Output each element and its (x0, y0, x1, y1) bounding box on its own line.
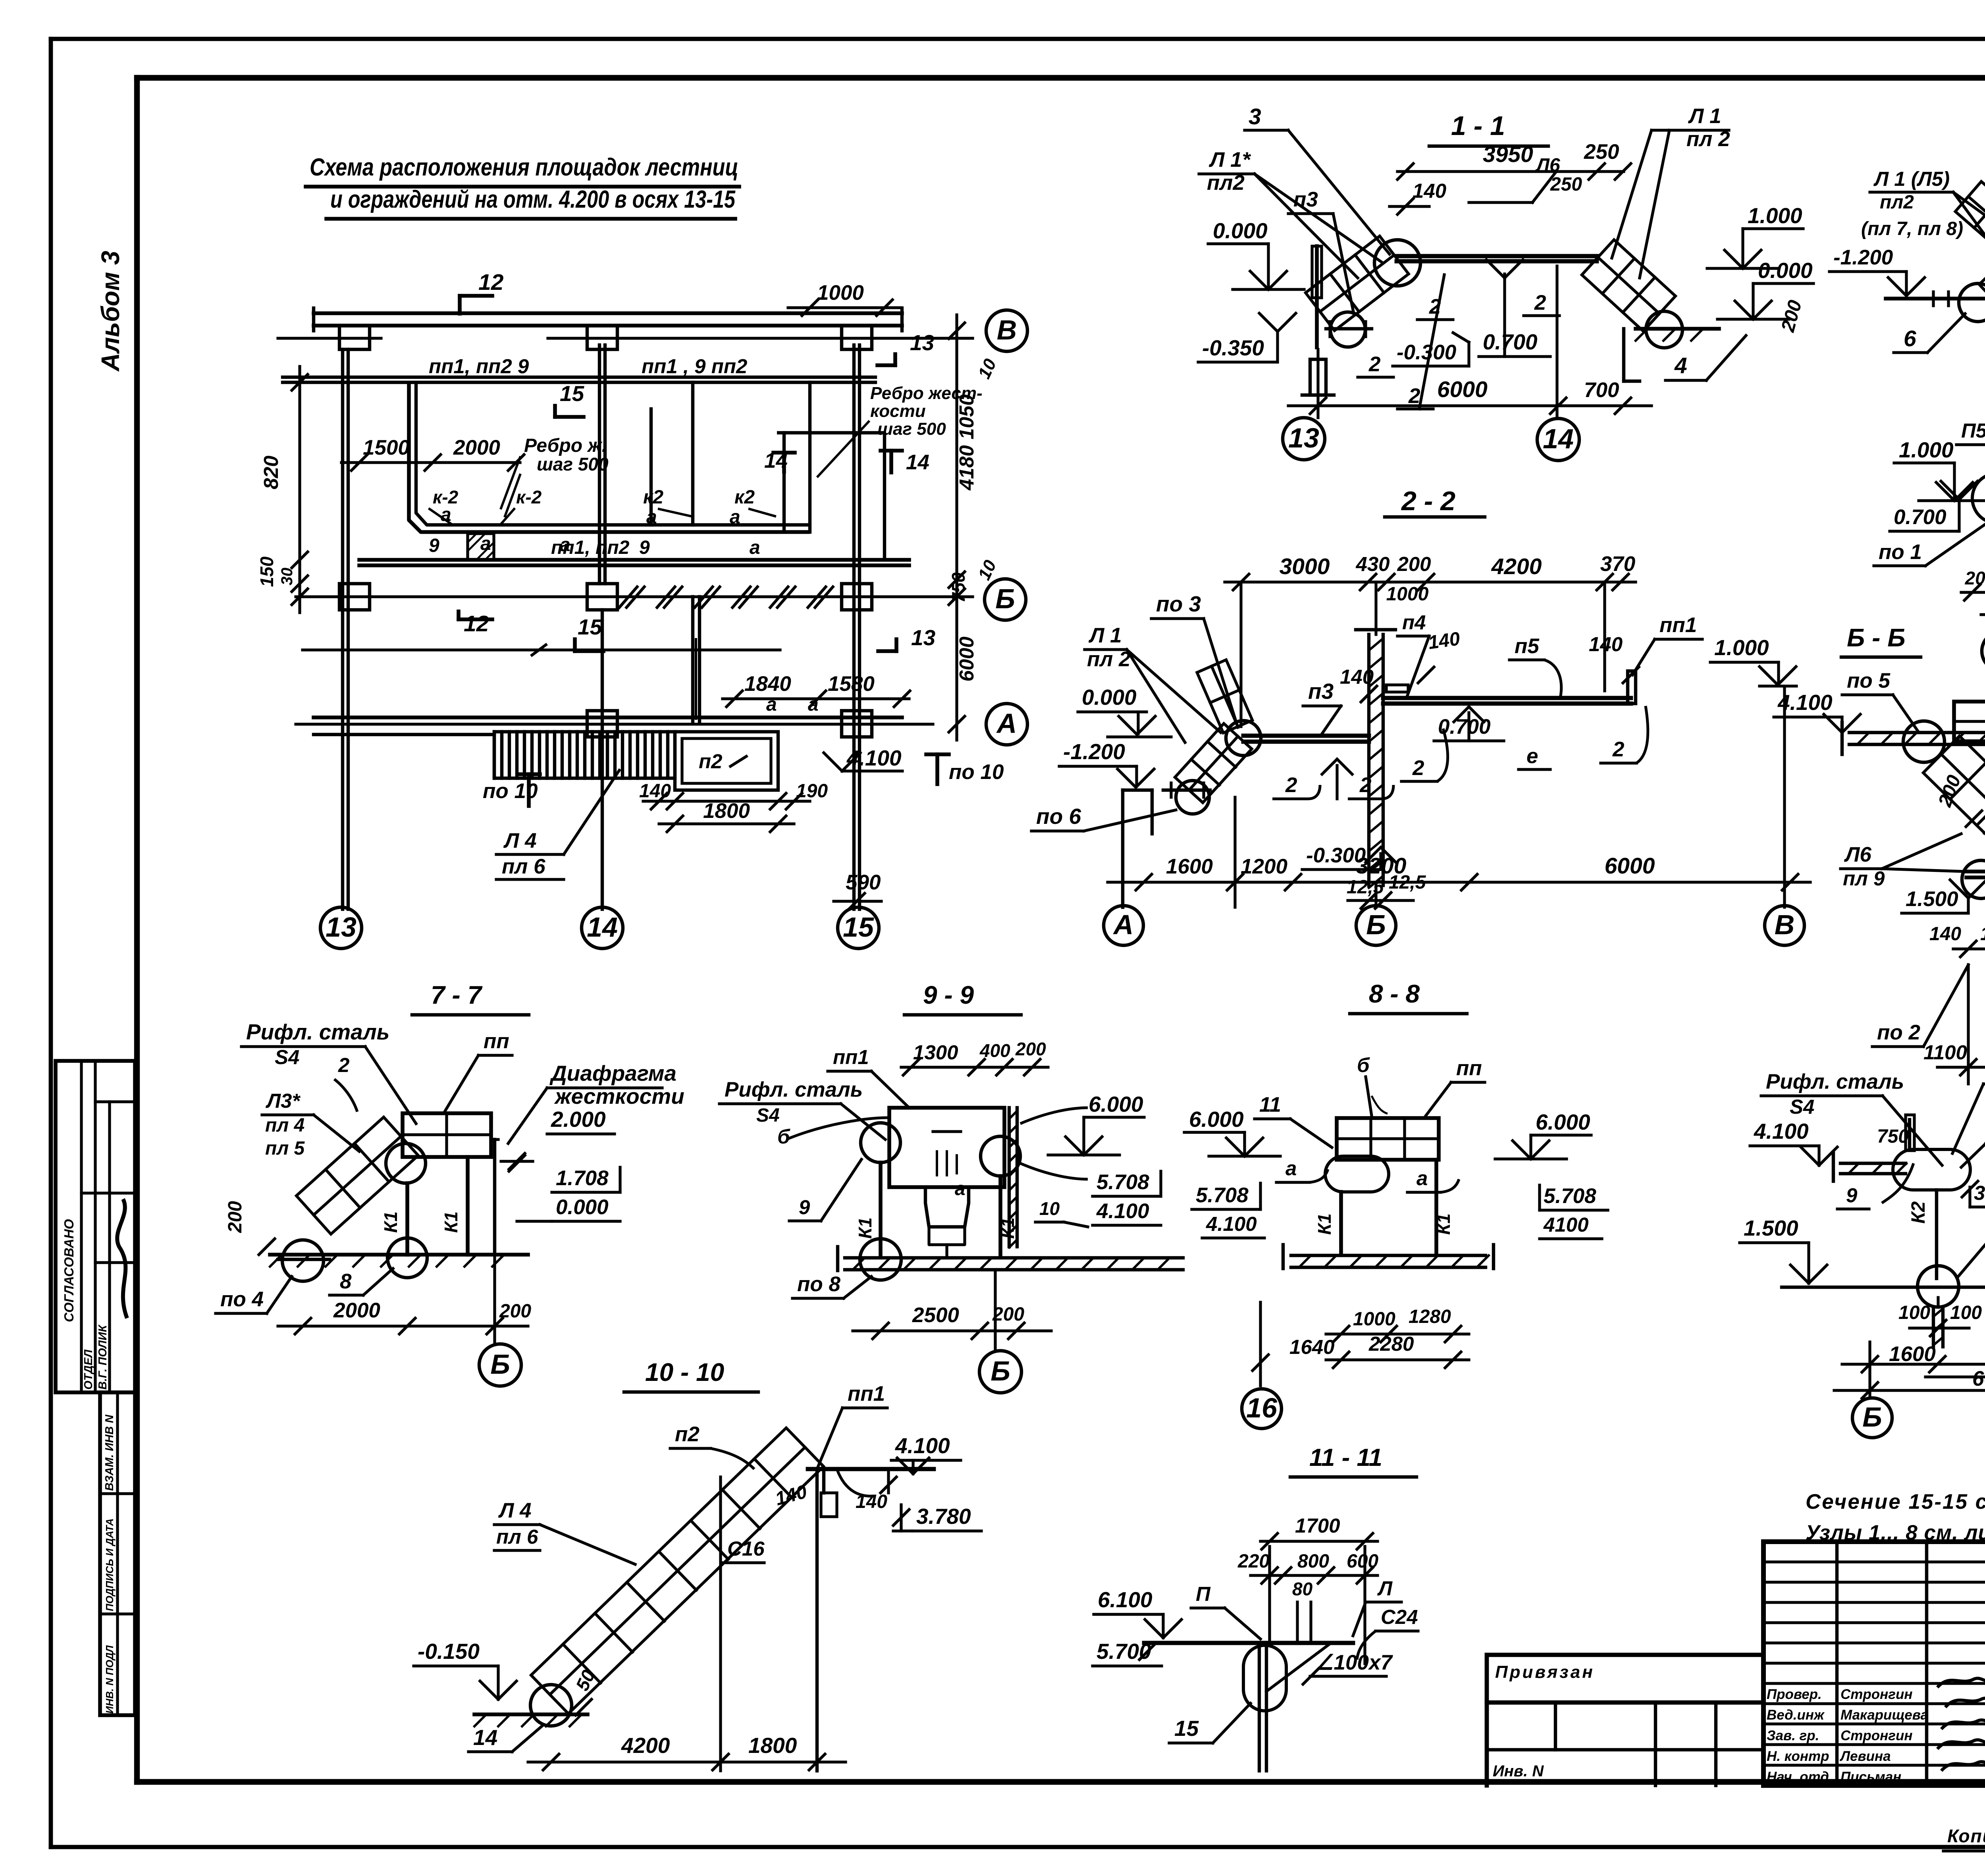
section 7-7 label 2 (334, 1054, 357, 1112)
section 1-1 label 2 curves (1358, 275, 1559, 409)
svg-text:140: 140 (856, 1491, 887, 1512)
section 1-1 node circle 3 (1374, 240, 1420, 286)
svg-text:пл2: пл2 (1880, 192, 1914, 213)
svg-text:140: 140 (639, 781, 671, 802)
plan elevation 4.100 (824, 746, 902, 771)
svg-text:14: 14 (1543, 423, 1574, 454)
svg-text:Рифл. сталь: Рифл. сталь (725, 1078, 863, 1101)
plan axis A line (296, 711, 933, 737)
svg-text:а: а (646, 507, 657, 528)
svg-text:3200: 3200 (1356, 853, 1407, 879)
svg-text:к2: к2 (643, 487, 663, 508)
section 2-2 label e (1519, 744, 1550, 769)
section 8-8 labels a a (1276, 1157, 1459, 1192)
svg-text:Альбом 3: Альбом 3 (96, 251, 125, 372)
section 10-10 label C16 (723, 1537, 765, 1563)
svg-text:2500: 2500 (912, 1303, 959, 1327)
svg-text:Вед.инж: Вед.инж (1767, 1707, 1825, 1723)
svg-text:750: 750 (1877, 1126, 1909, 1147)
section 1-1 dims top (1389, 140, 1631, 214)
svg-text:2: 2 (1408, 384, 1420, 408)
section 9-9 label a (955, 1178, 966, 1199)
svg-text:а: а (441, 504, 451, 525)
svg-text:пп1, пп2 9: пп1, пп2 9 (429, 355, 529, 378)
section 7-7 platform grid (403, 1113, 491, 1157)
svg-text:15: 15 (1174, 1716, 1199, 1741)
svg-text:1.000: 1.000 (1714, 635, 1769, 660)
svg-text:250: 250 (1584, 140, 1619, 164)
svg-text:1000: 1000 (817, 281, 864, 305)
plan right dim chain (948, 315, 1000, 740)
section 11-11 elevation 6.100 (1094, 1587, 1181, 1638)
svg-text:по 10: по 10 (949, 760, 1004, 784)
svg-text:пл 6: пл 6 (496, 1525, 538, 1548)
svg-text:1 - 1: 1 - 1 (1451, 111, 1505, 141)
svg-text:140: 140 (1413, 179, 1446, 202)
section 8-8 label b top (1357, 1054, 1388, 1116)
section 10-10 label L4 pl6 (494, 1499, 635, 1564)
svg-text:2: 2 (1534, 291, 1546, 314)
svg-text:шаг 500: шаг 500 (537, 454, 609, 474)
section 12-12 oval landing (1882, 1149, 1970, 1203)
svg-text:а: а (766, 694, 777, 715)
section 4-4 label p5 (1956, 419, 1985, 488)
svg-text:Л 1 (Л5): Л 1 (Л5) (1873, 168, 1950, 190)
svg-text:430: 430 (1355, 553, 1389, 575)
svg-text:2280: 2280 (1368, 1332, 1414, 1355)
section 1-1 elevation 0.000 left (1208, 218, 1304, 289)
plan axis circles bottom (320, 907, 879, 949)
svg-text:10: 10 (1039, 1198, 1060, 1219)
svg-text:4.100: 4.100 (1096, 1199, 1149, 1223)
svg-text:В: В (1775, 909, 1795, 940)
section 11-11 top dims (1237, 1514, 1378, 1642)
section 4-4 elevation 0.700 (1890, 481, 1977, 531)
section 7-7 label pp (445, 1030, 512, 1112)
svg-text:пп1: пп1 (1659, 613, 1697, 637)
svg-text:е: е (1526, 744, 1538, 768)
svg-text:Л 4: Л 4 (503, 829, 537, 852)
section 7-7 stair flight up-left (297, 1117, 418, 1234)
svg-text:3: 3 (1249, 104, 1261, 129)
plan top dim 1000 (788, 281, 901, 316)
svg-text:0.000: 0.000 (1213, 218, 1268, 243)
svg-text:п3: п3 (1293, 188, 1318, 211)
svg-text:к2: к2 (734, 487, 755, 508)
svg-text:4180: 4180 (955, 445, 978, 490)
section 2-2 pit po6 (1123, 790, 1152, 907)
svg-text:п3: п3 (1308, 679, 1334, 704)
sheet title line 2 (326, 186, 736, 219)
svg-text:К1: К1 (380, 1211, 401, 1233)
svg-text:4.100: 4.100 (1754, 1119, 1809, 1143)
section 10-10 label pp1 (817, 1382, 887, 1469)
svg-text:12: 12 (478, 270, 504, 295)
section 9-9 label pp1 (828, 1046, 909, 1108)
svg-text:6.000: 6.000 (1089, 1092, 1143, 1116)
section 10-10 title (624, 1358, 758, 1392)
svg-text:по 5: по 5 (1847, 669, 1891, 692)
svg-text:6.000: 6.000 (1189, 1107, 1244, 1132)
section 1-1 elevation -0.350 (1198, 313, 1296, 362)
section 1-1 bottom dims (1288, 266, 1652, 418)
svg-text:16: 16 (1246, 1392, 1278, 1423)
section 7-7 label rifl stal (241, 1020, 416, 1124)
section 10-10 label 50 (572, 1667, 599, 1716)
section 12-12 bottom dims (1834, 1287, 1985, 1398)
section B-B node circle (1903, 721, 1945, 762)
svg-text:13: 13 (910, 330, 934, 355)
plan section mark 12 lower (459, 611, 492, 636)
section 2-2 label 2 mid curly (1401, 729, 1448, 781)
section 2-2 bottom dims (1108, 797, 1810, 907)
plan label pp1 pp2 9 bottom (429, 535, 650, 558)
svg-text:К1: К1 (997, 1217, 1018, 1239)
svg-text:6000: 6000 (1437, 377, 1488, 402)
section 2-2 top dim chain (1225, 552, 1636, 605)
svg-text:пл 9: пл 9 (1843, 867, 1885, 890)
svg-text:2: 2 (1285, 773, 1297, 797)
svg-text:∠100х7: ∠100х7 (1315, 1651, 1393, 1674)
section 2-2 upper stair extension (1197, 660, 1253, 733)
svg-text:140: 140 (1589, 633, 1623, 656)
svg-text:1200: 1200 (1241, 855, 1287, 878)
svg-text:700: 700 (1584, 378, 1619, 402)
svg-text:4.100: 4.100 (1777, 690, 1833, 715)
svg-text:12,5: 12,5 (1347, 877, 1384, 898)
section B-B elevation 4.100 (1774, 690, 1860, 733)
svg-text:6: 6 (1904, 326, 1916, 351)
svg-text:7 - 7: 7 - 7 (431, 981, 483, 1009)
section 9-9 right leaders (1020, 1108, 1088, 1179)
plan section mark po10 left (483, 774, 540, 806)
svg-text:0.700: 0.700 (1894, 505, 1946, 529)
svg-text:13: 13 (1288, 422, 1319, 453)
svg-text:150: 150 (256, 556, 277, 587)
section 10-10 label p2 (670, 1423, 754, 1469)
section B-B labels 140 140 (1929, 924, 1985, 957)
svg-text:2000: 2000 (453, 436, 500, 459)
section 7-7 label 200 left (225, 1201, 275, 1255)
section 7-7 bottom dims (278, 1255, 531, 1334)
svg-text:4.100: 4.100 (895, 1433, 950, 1458)
svg-text:пл 2: пл 2 (1087, 648, 1131, 671)
section 2-2 elevation -0.300 mid (1302, 844, 1396, 870)
svg-text:-1.200: -1.200 (1833, 246, 1893, 269)
section 7-7 columns (380, 1139, 498, 1255)
svg-text:Диафрагма: Диафрагма (549, 1061, 676, 1085)
svg-text:шаг 500: шаг 500 (877, 419, 946, 439)
plan section mark po10 right (926, 754, 1004, 784)
svg-text:15: 15 (560, 381, 585, 406)
section B-B label L6 pl9 (1840, 834, 1965, 890)
svg-text:1000: 1000 (1386, 584, 1429, 605)
section 10-10 ground stub (474, 1714, 588, 1726)
svg-text:140: 140 (1340, 665, 1374, 688)
svg-text:по 8: по 8 (797, 1273, 840, 1296)
svg-text:пл 5: пл 5 (265, 1138, 305, 1159)
svg-text:S4: S4 (275, 1046, 299, 1068)
note uzly (1806, 1521, 1985, 1544)
svg-text:Макарищева: Макарищева (1840, 1707, 1928, 1723)
section B-B bottom dims (1923, 961, 1985, 1084)
plan upper slab edge (283, 377, 875, 382)
svg-text:пп1, пп2: пп1, пп2 (551, 537, 630, 558)
svg-text:S4: S4 (1790, 1095, 1814, 1118)
plan section mark 13 upper (877, 330, 934, 365)
svg-text:1800: 1800 (703, 799, 750, 823)
svg-text:5.708: 5.708 (1097, 1170, 1149, 1194)
svg-text:4100: 4100 (1543, 1213, 1588, 1236)
svg-text:пп1: пп1 (833, 1046, 869, 1068)
section 2-2 elevation -1.200 left (1059, 739, 1154, 787)
section 3-3 lower ground line (1886, 290, 1985, 312)
svg-text:Левина: Левина (1839, 1749, 1891, 1764)
section 8-8 columns K1 (1314, 1160, 1454, 1255)
svg-text:2000: 2000 (333, 1299, 380, 1322)
svg-text:а: а (750, 537, 760, 558)
section 3-3 label 6 (1894, 314, 1965, 353)
svg-text:1000: 1000 (1353, 1309, 1395, 1330)
svg-text:0.700: 0.700 (1483, 330, 1538, 354)
svg-text:Рифл. сталь: Рифл. сталь (246, 1020, 389, 1044)
section B-B mid landing (1962, 860, 1985, 898)
svg-text:п4: п4 (1402, 611, 1426, 634)
svg-text:820: 820 (260, 455, 282, 489)
plan platform outline (409, 382, 885, 560)
title block signature grid (1763, 1542, 1985, 1785)
section 8-8 bottom dims (1251, 1302, 1469, 1386)
section B-B platform grid (1954, 667, 1985, 741)
section 9-9 ground hatch band (838, 1247, 1183, 1271)
plan section mark 15 lower (575, 615, 603, 651)
svg-text:100: 100 (1898, 1302, 1930, 1323)
section 9-9 axis circle B (979, 1351, 1021, 1393)
plan dim 1500 2000 (341, 436, 524, 470)
svg-text:2.000: 2.000 (551, 1107, 606, 1132)
section 9-9 node circle bottom (860, 1239, 901, 1280)
svg-text:(пл 7, пл 8): (пл 7, пл 8) (1861, 218, 1963, 239)
section 7-7 elevations right (501, 1153, 620, 1221)
plan axis line V tails (278, 337, 973, 339)
section 11-11 elevation 5.700 (1093, 1639, 1162, 1666)
svg-text:Схема расположения площадок: Схема расположения площадок лестниц (310, 154, 738, 181)
svg-text:Инв. N: Инв. N (1493, 1762, 1544, 1780)
note sechenie (1806, 1490, 1985, 1514)
section 7-7 axis circle B (479, 1326, 521, 1386)
svg-text:250: 250 (1550, 174, 1582, 195)
svg-text:2: 2 (338, 1054, 349, 1076)
section 1-1 elevation -0.300 (1393, 333, 1469, 366)
svg-text:Копировал Подлевская: Копировал Подлевская (1947, 1826, 1985, 1846)
section 2-2 label po3 (1151, 592, 1238, 727)
svg-text:по 1: по 1 (1879, 540, 1922, 564)
svg-text:-1.200: -1.200 (1063, 739, 1125, 764)
plan column line 15 vertical (854, 345, 860, 909)
svg-text:6.100: 6.100 (1098, 1587, 1152, 1612)
svg-text:1.000: 1.000 (1748, 203, 1802, 228)
plan label rebro zh (501, 435, 609, 516)
section 7-7 ground line (270, 1255, 528, 1267)
svg-text:4.100: 4.100 (1206, 1213, 1257, 1235)
svg-text:8: 8 (340, 1270, 352, 1293)
section 12-12 axis circles (1852, 1398, 1985, 1439)
title block signature labels (1767, 1678, 1985, 1785)
section 3-3 stair flight (1955, 181, 1985, 260)
section 12-12 post 750 (1877, 1115, 1914, 1151)
svg-text:1.708: 1.708 (556, 1166, 609, 1190)
section 8-8 oval landing (1325, 1156, 1389, 1192)
svg-text:ПОДПИСЬ И ДАТА: ПОДПИСЬ И ДАТА (104, 1518, 116, 1611)
section 10-10 bottom dims (528, 1477, 846, 1771)
svg-text:Л6: Л6 (1844, 843, 1871, 866)
plan dim 1840 1580 (723, 672, 910, 707)
svg-text:1.500: 1.500 (1906, 887, 1958, 911)
svg-text:5.708: 5.708 (1544, 1184, 1596, 1208)
svg-text:2: 2 (1412, 756, 1424, 780)
svg-text:Зав. гр.: Зав. гр. (1767, 1728, 1819, 1743)
svg-text:П5: П5 (1961, 419, 1985, 442)
svg-text:Стронгин: Стронгин (1840, 1687, 1913, 1702)
svg-text:0.000: 0.000 (1082, 685, 1137, 710)
plan bottom small dims (639, 781, 881, 909)
svg-text:4200: 4200 (621, 1733, 670, 1758)
section 9-9 label 9 (789, 1159, 861, 1221)
svg-text:Сечение 15-15 см. лист 5: Сечение 15-15 см. лист 5 (1806, 1490, 1985, 1514)
svg-text:9: 9 (429, 535, 439, 556)
plan axis circles right (985, 310, 1027, 745)
section 8-8 elevations right (1495, 1110, 1608, 1239)
svg-text:1.000: 1.000 (1899, 438, 1954, 462)
section 10-10 platform right (808, 1469, 934, 1771)
section 4-4 label po1 (1874, 516, 1985, 566)
section 2-2 wall B hatched (1356, 630, 1395, 888)
section 11-11 label L right (1353, 1577, 1401, 1636)
section 12-12 column below with hatch (1933, 1298, 1943, 1347)
section 10-10 stair flight (531, 1428, 824, 1714)
plan column marks on axis V (339, 326, 872, 349)
svg-text:9: 9 (799, 1196, 810, 1219)
section 2-2 label 2 right curly (1601, 706, 1648, 763)
svg-text:Л3*: Л3* (265, 1089, 301, 1112)
section 2-2 labels around wall (1340, 611, 1461, 702)
section 9-9 label po8 (792, 1273, 871, 1298)
svg-text:6000: 6000 (1605, 853, 1655, 879)
plan long break line (303, 645, 780, 655)
svg-text:п2: п2 (699, 750, 723, 773)
plan left dim chain (256, 366, 308, 613)
section 2-2 elevation 0.000 left (1078, 685, 1171, 737)
svg-text:ОТДЕЛ: ОТДЕЛ (82, 1349, 95, 1390)
svg-text:1280: 1280 (1409, 1306, 1451, 1327)
svg-text:80: 80 (1292, 1579, 1313, 1599)
svg-text:пл2: пл2 (1207, 171, 1245, 195)
section 9-9 bottom dims (853, 1271, 1051, 1351)
svg-text:0.000: 0.000 (556, 1195, 609, 1219)
svg-text:6000: 6000 (955, 636, 978, 681)
svg-text:1.500: 1.500 (1744, 1216, 1798, 1240)
stamp block soglasovano (56, 1061, 135, 1392)
section B-B label po5 (1842, 669, 1918, 731)
section 2-2 label L1 pl2 left (1085, 624, 1221, 742)
svg-text:600: 600 (1347, 1551, 1378, 1572)
section 1-1 right wall (1624, 329, 1640, 381)
section 2-2 axis verticals (1241, 582, 1785, 907)
section 7-7 label L3 pl4 pl5 (262, 1089, 359, 1159)
section B-B label p1 (1984, 808, 1985, 870)
section 11-11 oval and column (1243, 1643, 1357, 1771)
svg-text:6000: 6000 (1972, 1367, 1985, 1390)
section 12-12 elevation 3.880 (1962, 1181, 1985, 1207)
svg-text:пп: пп (1456, 1057, 1482, 1080)
svg-text:9: 9 (1846, 1184, 1858, 1207)
svg-text:В: В (997, 314, 1017, 345)
svg-text:Л: Л (1377, 1577, 1393, 1600)
svg-text:-0.350: -0.350 (1202, 335, 1264, 360)
section B-B elevation 1.500 (1902, 880, 1985, 913)
plan section mark 13 lower (878, 625, 935, 651)
section 9-9 title (904, 981, 1021, 1015)
section 1-1 title (1429, 111, 1548, 146)
svg-text:С24: С24 (1381, 1606, 1418, 1628)
section 10-10 elevation 3.780 (893, 1504, 981, 1531)
section 11-11 label C24 (1357, 1606, 1418, 1660)
section 2-2 left stair flight (1175, 723, 1252, 803)
section 10-10 node circle (530, 1685, 572, 1726)
svg-text:Б: Б (1862, 1402, 1882, 1433)
svg-text:по 4: по 4 (220, 1288, 264, 1311)
svg-text:б: б (1357, 1054, 1370, 1076)
svg-text:а: а (1285, 1157, 1297, 1180)
section B-B label 200 (1934, 772, 1982, 827)
svg-text:15: 15 (578, 615, 603, 639)
svg-text:750: 750 (948, 572, 969, 603)
svg-text:по 2: по 2 (1877, 1021, 1920, 1044)
svg-text:200: 200 (499, 1301, 531, 1322)
plan section mark 14 left (764, 449, 795, 472)
section 10-10 elevation -0.150 (414, 1639, 516, 1699)
svg-text:13: 13 (911, 625, 935, 650)
svg-text:1500: 1500 (363, 436, 410, 459)
svg-text:190: 190 (796, 781, 828, 802)
section 8-8 ground hatch (1283, 1245, 1494, 1269)
svg-text:3000: 3000 (1280, 554, 1330, 579)
svg-text:3950: 3950 (1483, 142, 1533, 167)
section 1-1 left column (1302, 246, 1334, 395)
svg-text:Л 1: Л 1 (1088, 624, 1122, 647)
svg-text:9 - 9: 9 - 9 (923, 981, 974, 1009)
svg-text:К1: К1 (441, 1211, 461, 1233)
svg-text:П: П (1196, 1583, 1211, 1605)
plan label pp1 9 pp2 right (642, 355, 747, 378)
section 12-12 dims 100 100 (1898, 1302, 1982, 1336)
svg-text:пп: пп (484, 1030, 509, 1053)
plan labels a letters (441, 504, 819, 715)
section 3-3 node circle lower (1959, 283, 1985, 322)
section 7-7 title (412, 981, 529, 1015)
section 9-9 tank (889, 1108, 1004, 1258)
svg-text:200: 200 (992, 1304, 1024, 1325)
privyazan box (1487, 1655, 1763, 1785)
svg-text:К1: К1 (855, 1217, 875, 1239)
section 4-4 axis circle 13 (1982, 580, 1985, 671)
svg-text:200: 200 (225, 1201, 246, 1233)
svg-text:140: 140 (1980, 924, 1985, 945)
section 3-3 elevation -1.200 (1829, 246, 1925, 296)
footer kopiroval (1943, 1826, 1985, 1851)
svg-text:к-2: к-2 (516, 487, 542, 507)
svg-text:14: 14 (906, 451, 929, 474)
